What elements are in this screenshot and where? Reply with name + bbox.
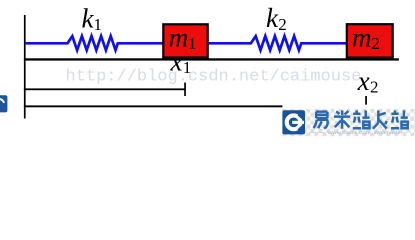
svg-text:2: 2 — [371, 34, 380, 53]
svg-text:1: 1 — [183, 58, 192, 77]
svg-text:x: x — [170, 46, 183, 76]
svg-text:2: 2 — [278, 15, 287, 34]
svg-text:k: k — [266, 3, 279, 33]
svg-text:1: 1 — [94, 15, 103, 34]
svg-text:1: 1 — [188, 34, 197, 53]
svg-text:http://blog.csdn.net/caimouse: http://blog.csdn.net/caimouse — [66, 68, 362, 87]
svg-text:x: x — [357, 66, 370, 96]
svg-text:——— Www.Easck.Com Webmaster··: ——— Www.Easck.Com Webmaster··· — [309, 130, 408, 135]
svg-text:m: m — [352, 23, 372, 53]
svg-text:2: 2 — [370, 78, 379, 97]
